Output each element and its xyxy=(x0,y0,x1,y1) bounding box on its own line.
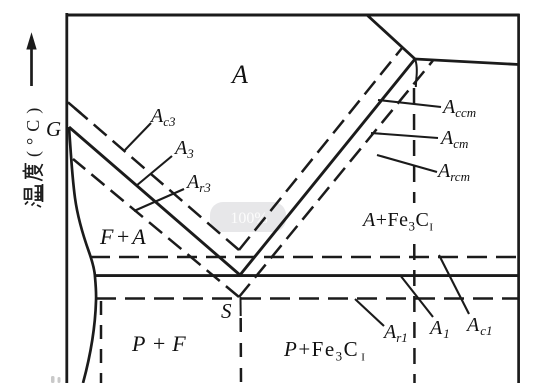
y-axis label 温度(°C) rotated xyxy=(23,102,45,207)
short solid drop below E xyxy=(415,59,417,87)
y-axis arrow xyxy=(27,34,36,86)
svg-text:G: G xyxy=(46,117,61,141)
box: left border xyxy=(65,13,68,383)
svg-text:(°C): (°C) xyxy=(23,102,44,157)
short solid vertical below Ar vertex xyxy=(240,297,242,316)
svg-text:P+F: P+F xyxy=(131,331,192,356)
svg-text:A: A xyxy=(230,60,248,89)
hanzi 温 xyxy=(25,184,43,207)
A1 solid horizontal (eutectoid) xyxy=(94,274,519,277)
svg-text:S: S xyxy=(221,299,232,323)
leader A1 xyxy=(400,275,433,317)
Ac1 dashed horizontal xyxy=(90,256,519,259)
box: top border xyxy=(66,14,520,17)
Acm solid line E to S xyxy=(240,59,415,275)
white gap for A+Fe3C label over dashed line xyxy=(399,203,441,234)
leader Ac3 xyxy=(125,123,151,150)
leader Accm xyxy=(378,100,441,107)
vertical dashed below S xyxy=(239,318,242,383)
Ac3 dashed line xyxy=(70,104,239,250)
leader A3 xyxy=(136,156,172,186)
Ar1 dashed horizontal xyxy=(96,297,519,300)
A3 solid line G to S xyxy=(69,127,240,275)
vertical dashed at x=101 (0.02%C) xyxy=(100,301,103,383)
vertical dashed below E xyxy=(413,88,416,383)
leader Ac1 xyxy=(439,255,469,314)
wire Ac3 dash start patch at border xyxy=(68,102,81,113)
wire NJ solid (top boundary of A region) xyxy=(367,15,415,59)
svg-text:100%: 100% xyxy=(230,210,267,227)
watermark 100% pill xyxy=(210,202,286,232)
Ar3 dashed line xyxy=(73,159,239,297)
hanzi 度 xyxy=(23,163,43,181)
faint cropped glyph remnant bottom-left xyxy=(51,376,61,383)
wire E-right solid xyxy=(415,59,519,65)
Arcm dashed line xyxy=(239,61,433,298)
svg-text:A+Fe3CI: A+Fe3CI xyxy=(361,209,434,234)
box: right border xyxy=(517,14,520,383)
leader Arcm xyxy=(377,155,437,172)
Accm dashed line xyxy=(239,48,402,250)
GP / PQ solid curve xyxy=(69,127,96,383)
leader Ar1 xyxy=(355,299,384,326)
svg-text:P+Fe3CI: P+Fe3CI xyxy=(283,337,366,364)
leader Ar3 xyxy=(134,189,184,211)
svg-text:F+A: F+A xyxy=(99,224,148,249)
leader Acm xyxy=(371,133,438,138)
